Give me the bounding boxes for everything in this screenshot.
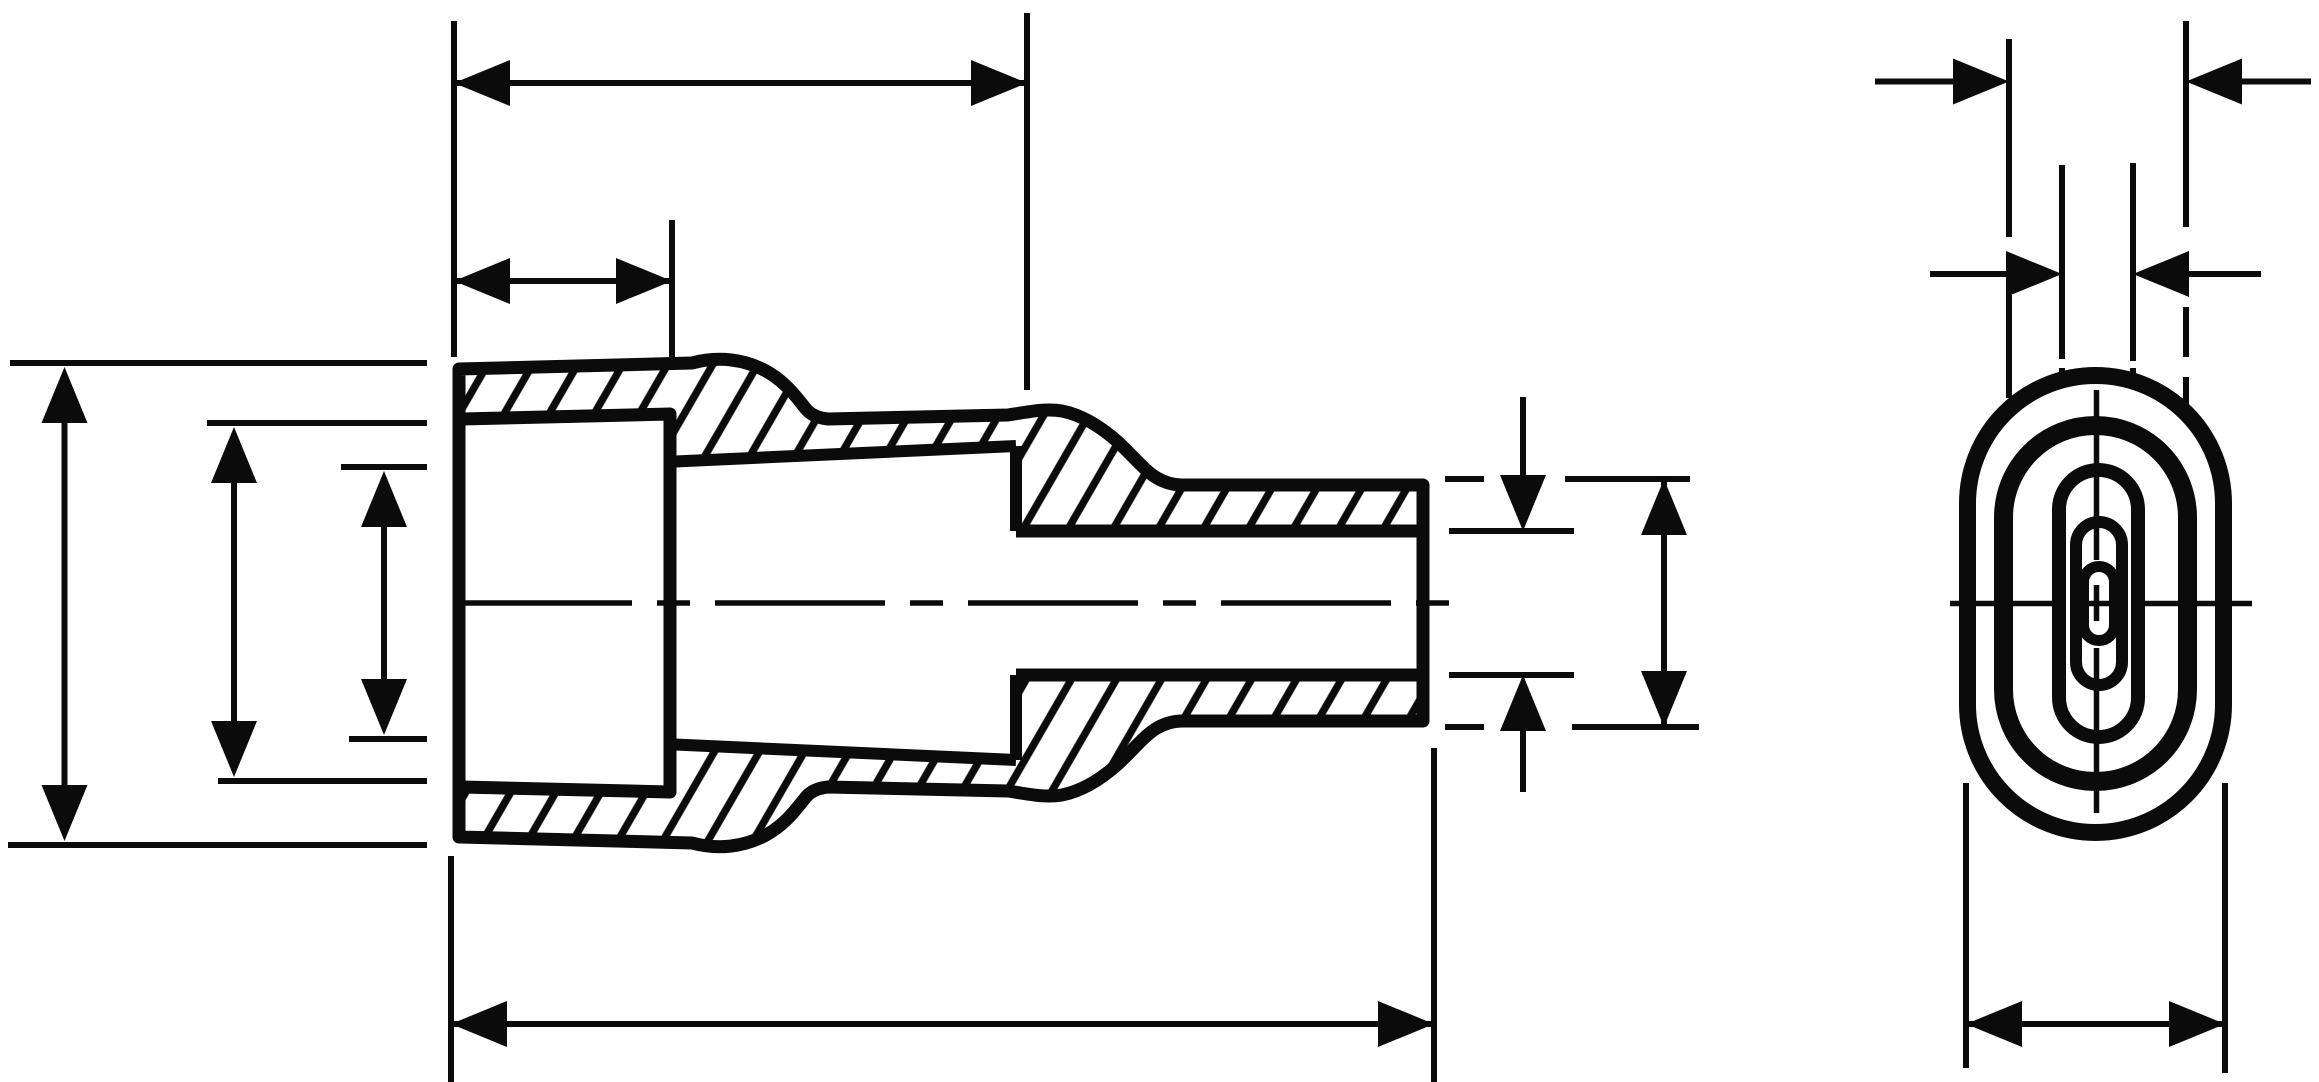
arrowhead overall-length left [451,1001,507,1047]
extension line cavity wall (top dim) [669,220,675,357]
dimension mid-bore height: shaft [381,524,387,682]
arrowhead end-view-outer right [2186,59,2242,105]
end view ring 2 [2004,426,2188,782]
end view horizontal centerline [1950,601,2252,607]
middle bore bottom line [664,744,1016,760]
dimension end-view outer width: shafts [1875,79,2311,85]
middle bore top line [664,446,1016,462]
extension line mid-bore top (left) [341,464,427,470]
extension line cavity bottom (left) [218,778,427,784]
arrowhead cavity-depth left [454,258,510,304]
arrowhead mid-bore down [361,679,407,735]
small bore top line [1016,525,1423,538]
arrowhead small-bore up [1500,675,1546,731]
dimension small-tube bore: arrow shafts [1520,397,1526,478]
arrowhead end-view-outer left [1953,59,2009,105]
arrowhead end-view-width right [2169,1001,2225,1047]
dimension cap-to-step length: shaft [454,80,1027,86]
extension line bottom-left (overall length) [448,856,454,1082]
extension lines end-view outer width (top) [2006,39,2012,398]
extension lines small-tube outer (right) [1445,476,1690,482]
extension line top outer height (left) [10,360,427,366]
dimension cavity height: shaft [231,480,237,724]
arrowhead end-view-width left [1966,1001,2022,1047]
dimension overall length: shaft [451,1021,1434,1027]
dimension end-view width: shaft [1966,1021,2225,1027]
dimension cavity depth: shaft [454,278,672,284]
extension lines small-tube bore (right) [1449,528,1574,534]
arrowhead end-view-inner right [2133,251,2189,297]
small bore bottom line [1016,669,1423,682]
arrowhead outer-height down [42,785,88,841]
extension line left end (top dims) [451,21,457,357]
arrowhead cap-length left [454,60,510,106]
end view vertical centerline [2094,390,2100,813]
arrowhead end-view-inner left [2006,251,2062,297]
hatched top wall of cap (section) [459,359,1423,531]
bore step vertical bottom [1010,675,1022,760]
dimension outer height: shaft [62,420,68,788]
arrowhead cavity-height down [211,721,257,777]
arrowhead small-tube-outer up [1641,479,1687,535]
end view ring 3 (small tube outer) [2059,470,2138,737]
arrowhead cap-length right [971,60,1027,106]
extension line end-view width bottom-left [1963,783,1969,1068]
arrowhead small-tube-outer down [1641,671,1687,727]
end view ring 1 (outer shell) [1968,376,2224,833]
arrowhead overall-length right [1378,1001,1434,1047]
inner cavity (large bore) outline [462,414,670,792]
end view ring 5 (small bore) [2084,567,2115,641]
extension line bottom-right (overall length) [1431,748,1437,1082]
dimension small-tube outer: shaft [1661,482,1667,724]
extension line end-view width bottom-right [2222,783,2228,1073]
extension line mid-bore bottom (left) [349,736,427,742]
centerline of side view [462,600,1452,606]
arrowhead cavity-height up [211,427,257,483]
hatched bottom wall of cap (section) [459,675,1423,847]
bore step vertical top [1010,446,1022,531]
extension line inner step (top dim) [1024,13,1030,390]
dimension end-view inner width: shafts [1930,271,2261,277]
arrowhead mid-bore up [361,471,407,527]
arrowhead cavity-depth right [616,258,672,304]
arrowhead outer-height up [42,367,88,423]
arrowhead small-bore down [1500,475,1546,531]
end view ring 4 [2076,522,2122,685]
extension line bottom outer height (left) [8,842,427,848]
cap outer profile outline (side section view) [459,359,1423,846]
extension lines end-view inner width (top) [2059,165,2065,380]
extension line cavity top (left) [207,420,427,426]
